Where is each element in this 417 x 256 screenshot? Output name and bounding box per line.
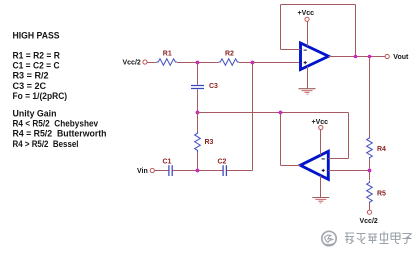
wire U1 output <box>329 56 388 58</box>
junction rail2 at U2 output column <box>279 111 283 115</box>
wire +Vcc U2 to op-amp <box>320 130 322 156</box>
wire N2 down to Vin line <box>252 63 254 171</box>
svg-text:C3 = 2C: C3 = 2C <box>13 81 47 91</box>
wire U1 minus input <box>281 49 301 51</box>
junction rail2 left <box>196 111 200 115</box>
wire Vout column down to R4 <box>369 57 371 137</box>
wire Vcc/2 to R1 <box>147 62 156 64</box>
wire U2 plus input <box>328 170 369 172</box>
wire R5 to Vcc/2 terminal <box>369 204 371 210</box>
wire R3 top <box>197 113 199 132</box>
svg-text:R2: R2 <box>225 51 234 58</box>
terminal Vcc/2 left <box>143 60 147 64</box>
wire U2 to ground <box>320 176 322 198</box>
capacitor C3 <box>191 83 218 90</box>
wire U1 feedback right vertical <box>355 5 357 57</box>
junction node N2 <box>251 61 255 65</box>
wire U1 to ground <box>307 66 309 88</box>
svg-text:+Vcc: +Vcc <box>312 119 329 126</box>
wire U2 output up to rail2 <box>280 113 282 166</box>
capacitor C1 <box>163 159 173 177</box>
resistor R2 <box>219 51 240 66</box>
junction Vout column <box>368 55 372 59</box>
wire U1 feedback left vertical <box>280 5 282 50</box>
wire junction to R5 <box>369 171 371 181</box>
svg-text:Vin: Vin <box>137 168 148 175</box>
junction node A <box>196 169 200 173</box>
svg-text:Vout: Vout <box>393 54 409 61</box>
svg-text:R1: R1 <box>163 51 172 58</box>
resistor R5 <box>367 181 386 204</box>
ground U2 <box>312 198 329 203</box>
wire R3 bottom to node A <box>197 152 199 171</box>
watermark logo <box>322 231 336 245</box>
terminal Vin <box>150 168 154 172</box>
wire C1 to node A <box>173 170 198 172</box>
wire R2 to node N2 <box>239 62 253 64</box>
wire R4 to junction <box>369 159 371 170</box>
junction R4 R5 <box>368 169 372 173</box>
svg-text:R3 = R/2: R3 = R/2 <box>13 71 49 81</box>
resistor R4 <box>367 137 386 160</box>
svg-text:HIGH PASS: HIGH PASS <box>13 31 60 41</box>
svg-text:R4 < R5/2 Chebyshev: R4 < R5/2 Chebyshev <box>13 119 99 129</box>
terminal +Vcc U2 <box>319 125 323 129</box>
svg-text:R1 = R2 = R: R1 = R2 = R <box>13 50 61 60</box>
svg-text:Unity Gain: Unity Gain <box>13 109 57 119</box>
ground U1 <box>299 89 316 94</box>
svg-text:R4 = R5/2 Butterworth: R4 = R5/2 Butterworth <box>13 129 107 139</box>
wire rail2 horizontal <box>198 112 349 114</box>
terminal Vout <box>385 54 389 58</box>
wire Vin to C1 <box>155 170 169 172</box>
svg-text:C3: C3 <box>209 83 218 90</box>
wire U1 feedback top horizontal <box>281 4 356 6</box>
svg-text:R3: R3 <box>205 139 214 146</box>
svg-text:Vcc/2: Vcc/2 <box>360 218 378 225</box>
resistor R1 <box>157 51 178 66</box>
svg-text:+Vcc: +Vcc <box>298 10 315 17</box>
op-amp U2 <box>300 151 328 179</box>
wire U2 minus input <box>328 158 348 160</box>
wire C3 bottom to rail2 <box>197 89 199 112</box>
junction node N1 <box>196 61 200 65</box>
watermark text <box>345 232 412 244</box>
wire U2 feedback right vertical <box>348 113 350 159</box>
wire N2 to U1 plus input <box>253 62 301 64</box>
svg-text:Fo = 1/(2pRC): Fo = 1/(2pRC) <box>13 91 68 101</box>
junction U1 output feedback <box>354 55 358 59</box>
wire C2 to N2 column <box>227 170 253 172</box>
svg-text:R4 > R5/2 Bessel: R4 > R5/2 Bessel <box>13 139 79 149</box>
wire U2 output <box>281 165 301 167</box>
wire +Vcc U1 to op-amp <box>307 21 309 46</box>
svg-text:R4: R4 <box>377 146 386 153</box>
wire N1 to R2 <box>198 62 219 64</box>
op-amp U1 <box>301 43 329 70</box>
wire node A to C2 <box>198 170 223 172</box>
terminal Vcc/2 bottom <box>367 210 371 214</box>
resistor R3 <box>195 132 214 153</box>
wire C3 top <box>197 63 199 85</box>
svg-text:Vcc/2: Vcc/2 <box>123 60 141 67</box>
svg-text:C2: C2 <box>218 159 227 166</box>
capacitor C2 <box>218 159 227 177</box>
wire R1 to node N1 <box>177 62 198 64</box>
svg-text:C1 = C2 = C: C1 = C2 = C <box>13 61 60 71</box>
terminal +Vcc U1 <box>305 17 309 21</box>
svg-text:R5: R5 <box>377 190 386 197</box>
svg-text:C1: C1 <box>163 159 172 166</box>
